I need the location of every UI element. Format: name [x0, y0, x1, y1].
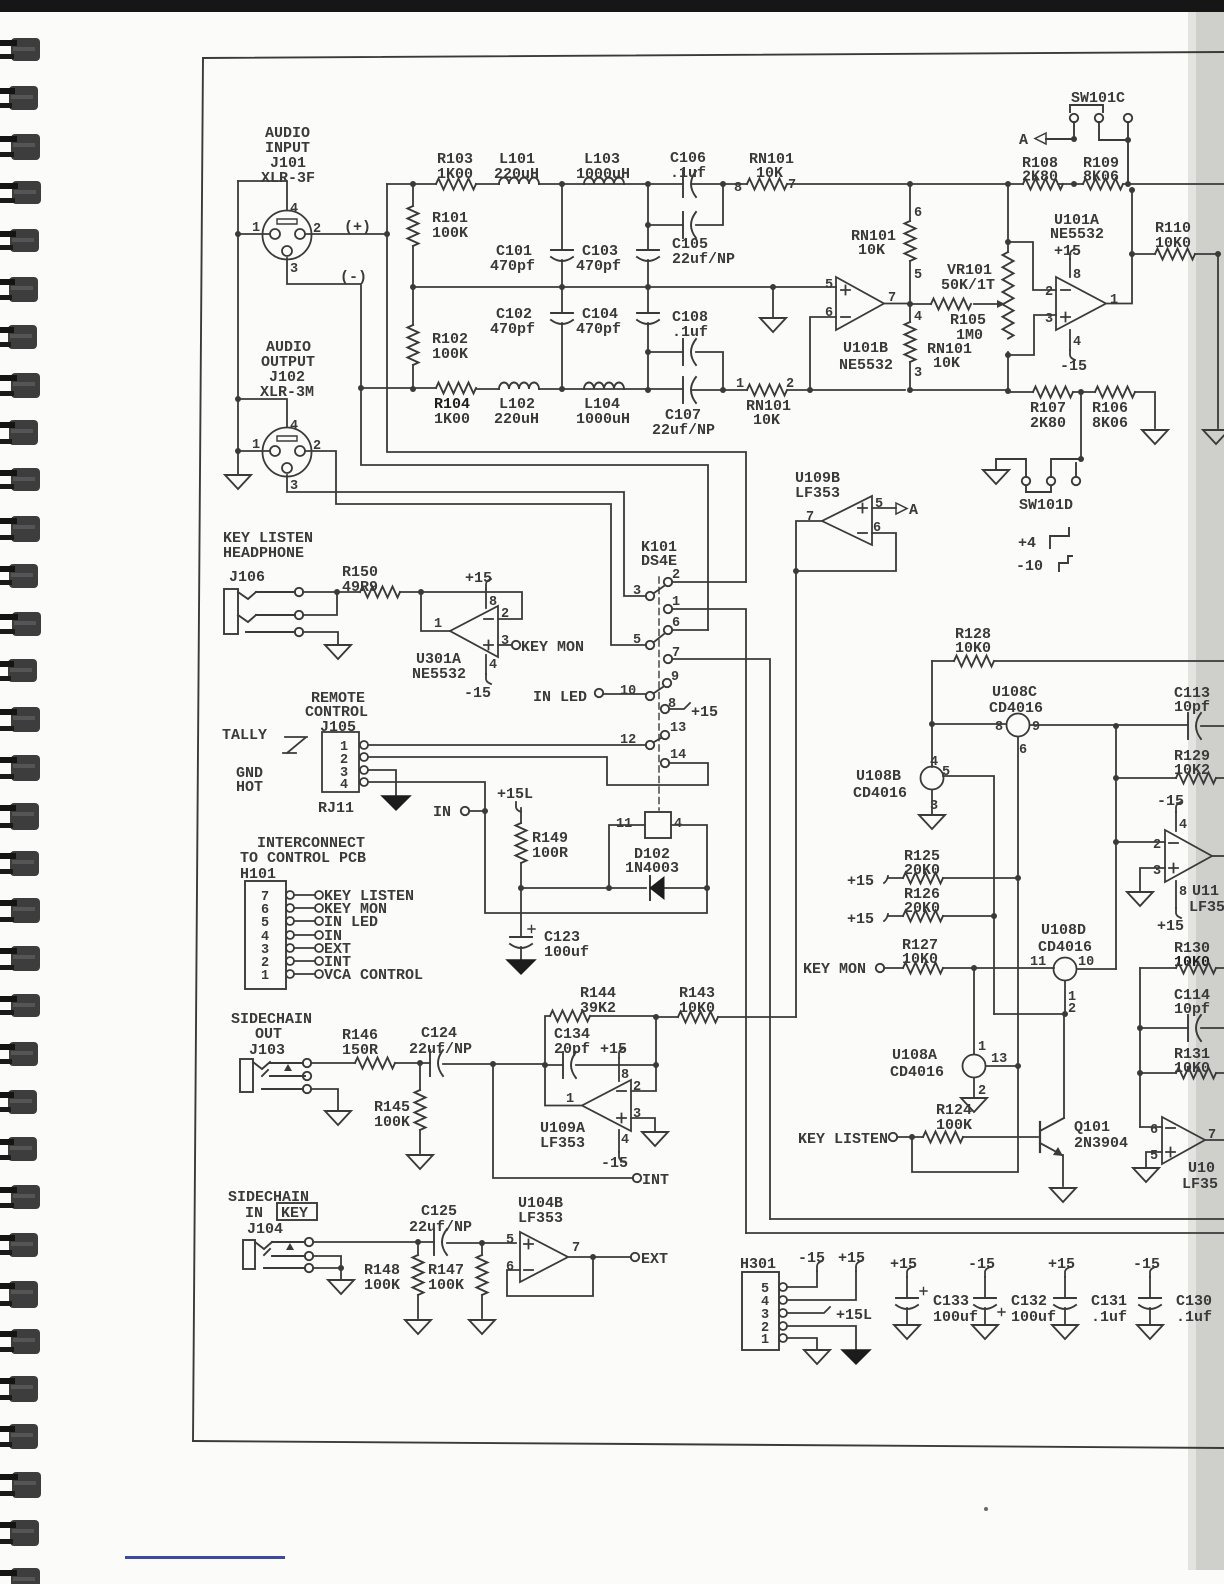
resistor R150 49R9: [360, 587, 400, 598]
H101 pin row KEY MON: [286, 904, 294, 912]
svg-text:100K: 100K: [432, 225, 468, 242]
wire (+) riser to top rail: [386, 184, 388, 234]
node C106 right: [720, 181, 726, 187]
wire U108B pin3 to ground: [931, 790, 933, 814]
wire mid (-) rail: [413, 286, 836, 288]
svg-text:5: 5: [506, 1233, 514, 1248]
wire J102 pin3 to K101 contact 3: [287, 475, 646, 596]
K101 contact 13: [661, 731, 669, 739]
U101A power +15 pin 8: [1069, 259, 1071, 277]
capacitor C108 loop: [648, 352, 723, 390]
svg-text:(-): (-): [340, 269, 367, 286]
svg-text:-15: -15: [1133, 1256, 1160, 1273]
svg-text:10K0: 10K0: [679, 1000, 715, 1017]
resistor R145 100K: [419, 1063, 421, 1153]
wire bottom audio bus (contact1 net): [746, 1232, 1224, 1234]
ground under J102: [225, 475, 251, 489]
svg-text:13: 13: [670, 721, 686, 736]
svg-text:3: 3: [501, 634, 509, 649]
wire R110 to edge ground: [1217, 254, 1219, 428]
wire U109A output: [545, 1065, 582, 1106]
svg-text:7: 7: [806, 510, 814, 525]
op-amp U110A (top right, clipped): [1116, 841, 1165, 843]
K101 contact 6: [664, 626, 672, 634]
svg-text:C130: C130: [1176, 1293, 1212, 1310]
H101 pin row KEY LISTEN: [286, 891, 294, 899]
K101 contact 1: [664, 605, 672, 613]
svg-text:4: 4: [1073, 335, 1081, 350]
svg-text:+15: +15: [1054, 243, 1081, 260]
svg-text:7: 7: [788, 178, 796, 193]
svg-text:8K06: 8K06: [1083, 169, 1119, 186]
op-amp U109B LF353 (points left): [822, 496, 872, 545]
svg-text:470pf: 470pf: [490, 258, 535, 275]
wire U109B pin5 to A arrow: [872, 507, 896, 509]
node R150 output: [400, 591, 421, 593]
U301A power pin 8 +15: [485, 589, 487, 608]
svg-text:10pf: 10pf: [1174, 699, 1210, 716]
relay K101 mechanical dashed link: [658, 577, 660, 810]
svg-text:13: 13: [991, 1052, 1007, 1067]
wire U108A pin2 to ground: [973, 1078, 975, 1097]
svg-text:-15: -15: [798, 1250, 825, 1267]
svg-text:C124: C124: [421, 1025, 457, 1042]
svg-text:2K80: 2K80: [1030, 415, 1066, 432]
svg-text:8: 8: [1179, 885, 1187, 900]
K101 contact 3 with arm: [646, 592, 654, 600]
K101 contact 5 with arm: [646, 641, 654, 649]
schematic frame border: [193, 52, 1224, 1448]
svg-text:4: 4: [340, 778, 348, 793]
H301 pin2 to power ground: [787, 1326, 856, 1349]
svg-text:+15: +15: [1157, 918, 1184, 935]
K101 contact 7: [664, 655, 672, 663]
svg-text:3: 3: [914, 366, 922, 381]
potentiometer VR101 element: [1007, 184, 1009, 391]
svg-text:4: 4: [914, 310, 922, 325]
svg-text:6: 6: [825, 306, 833, 321]
resistor RN101 pins 1-2 (bottom rail): [747, 385, 787, 396]
capacitor C105 parallel loop: [648, 184, 723, 225]
svg-text:8: 8: [734, 181, 742, 196]
node R107/R106 junction: [1078, 389, 1084, 395]
wire J102 pin4: [238, 399, 287, 427]
node bottom rail junction 2: [645, 387, 651, 393]
svg-text:4: 4: [290, 202, 298, 217]
svg-text:8K06: 8K06: [1092, 415, 1128, 432]
svg-text:1000uH: 1000uH: [576, 411, 630, 428]
connector J106 headphone jack: [224, 588, 303, 636]
wire J102 pin1: [238, 451, 270, 474]
H101 pin row IN: [286, 931, 294, 939]
svg-text:1M0: 1M0: [956, 327, 983, 344]
svg-text:3: 3: [633, 1107, 641, 1122]
capacitor C124 22uf/NP: [420, 1063, 493, 1064]
svg-text:C132: C132: [1011, 1293, 1047, 1310]
op-amp U101B NE5532: [836, 277, 884, 330]
svg-text:470pf: 470pf: [576, 258, 621, 275]
svg-text:+15: +15: [465, 570, 492, 587]
svg-text:22uf/NP: 22uf/NP: [672, 251, 735, 268]
resistor R110 10K0: [1132, 253, 1218, 255]
svg-text:IN: IN: [433, 804, 451, 821]
capacitor C134 20pf: [545, 1064, 656, 1066]
svg-text:220uH: 220uH: [494, 166, 539, 183]
U109A power pin4 -15: [618, 1130, 620, 1152]
wire U101B pin6 feedback: [810, 317, 836, 390]
svg-text:100R: 100R: [532, 845, 568, 862]
wire U110B output stub: [1205, 1139, 1224, 1141]
wire U110A output stub: [1212, 855, 1224, 857]
svg-text:10K: 10K: [753, 412, 780, 429]
resistor R103: [436, 179, 476, 190]
connector J101 XLR-3F: [263, 211, 312, 260]
wire U108A pin1 control to KEY MON line: [973, 968, 975, 1054]
wire U108C pin9 to C113 node: [1030, 724, 1188, 726]
inductor L104: [584, 383, 624, 390]
inductor L102: [499, 383, 539, 390]
svg-text:5: 5: [825, 278, 833, 293]
svg-text:1: 1: [261, 969, 269, 984]
svg-text:.1uf: .1uf: [672, 324, 708, 341]
inductor L101: [499, 178, 539, 185]
connector J103 jack: [240, 1059, 311, 1093]
wire coil to D102: [609, 825, 707, 888]
node pin4 junction: [235, 396, 241, 402]
svg-text:CD4016: CD4016: [853, 785, 907, 802]
svg-text:1N4003: 1N4003: [625, 860, 679, 877]
svg-text:+15L: +15L: [836, 1307, 872, 1324]
svg-text:+15L: +15L: [497, 786, 533, 803]
svg-text:KEY LISTEN: KEY LISTEN: [798, 1131, 888, 1148]
wire U108C pin8: [932, 723, 1006, 725]
svg-text:INT: INT: [642, 1172, 669, 1189]
resistor R146 150R: [311, 1062, 420, 1064]
resistor R108 2K80: [1023, 179, 1063, 190]
svg-text:10K0: 10K0: [955, 640, 991, 657]
H301 pin3 to +15L: [787, 1307, 830, 1313]
wire (+) drop to relay K101: [387, 234, 746, 582]
svg-text:2: 2: [786, 377, 794, 392]
H101 pin row VCA CONTROL: [286, 970, 294, 978]
svg-text:OUT: OUT: [255, 1026, 282, 1043]
svg-text:20pf: 20pf: [554, 1041, 590, 1058]
svg-text:22uf/NP: 22uf/NP: [409, 1219, 472, 1236]
wire J106 tip to R150: [303, 591, 360, 593]
svg-text:U108A: U108A: [892, 1047, 937, 1064]
blue pen mark bottom left: [125, 1556, 285, 1559]
transistor Q101 2N3904: [1039, 1122, 1041, 1152]
wire J105 pin3 to ground: [368, 770, 396, 795]
svg-text:1K00: 1K00: [434, 411, 470, 428]
svg-text:KEY MON: KEY MON: [521, 639, 584, 656]
svg-text:1000uH: 1000uH: [576, 166, 630, 183]
svg-text:470pf: 470pf: [576, 321, 621, 338]
svg-text:KEY: KEY: [281, 1205, 308, 1222]
wire to U301A pin2 loop: [421, 592, 522, 619]
node A arrow left: [1035, 133, 1046, 144]
svg-text:LF353: LF353: [795, 485, 840, 502]
wire U109B pin6 feedback loop: [796, 533, 896, 571]
op-amp U109A LF353 (points left): [582, 1080, 631, 1131]
switch SW101D: [1080, 392, 1082, 459]
wire J101 pin4 to ground rail: [238, 181, 287, 210]
svg-text:5: 5: [942, 765, 950, 780]
wire bottom audio bus (contact7 net): [770, 1218, 1224, 1220]
svg-text:HEADPHONE: HEADPHONE: [223, 545, 304, 562]
node top rail junction 1: [559, 181, 565, 187]
svg-text:RJ11: RJ11: [318, 800, 354, 817]
svg-text:C133: C133: [933, 1293, 969, 1310]
resistor R107 2K80: [910, 390, 1095, 392]
node top rail junction 2: [645, 181, 651, 187]
svg-text:-15: -15: [968, 1256, 995, 1273]
wire bottom rail: [361, 388, 905, 390]
svg-text:2: 2: [633, 1080, 641, 1095]
wire U110B pin5 ground: [1146, 1152, 1162, 1167]
svg-text:3: 3: [290, 262, 298, 277]
wire (-) drop to relay K101: [361, 388, 708, 630]
wire U101A pin3 input: [1008, 315, 1056, 355]
U301A power pin 4 -15: [485, 655, 487, 674]
svg-text:+15: +15: [847, 911, 874, 928]
K101 contact 14: [661, 759, 669, 767]
capacitor C125 22uf/NP: [434, 1229, 447, 1255]
capacitor C103: [647, 225, 649, 287]
wire control loop to KEY LISTEN: [912, 1066, 1018, 1172]
potentiometer VR101 wiper arrow: [997, 300, 1005, 308]
svg-text:4: 4: [489, 658, 497, 673]
capacitor C102: [561, 287, 563, 389]
H301 pin1 to ground: [787, 1338, 817, 1349]
svg-text:IN: IN: [245, 1205, 263, 1222]
wire R106 to ground: [1135, 392, 1155, 428]
resistor R109 8K06: [1083, 179, 1123, 190]
svg-text:100K: 100K: [936, 1117, 972, 1134]
node J101 pin1 junction: [235, 231, 241, 237]
svg-text:2: 2: [501, 607, 509, 622]
wire U101A output to feedback node: [1106, 190, 1132, 304]
H101 pin row IN LED: [286, 917, 294, 925]
wire contact 14 to J105 pin2: [368, 757, 708, 785]
svg-text:3: 3: [1153, 864, 1161, 879]
svg-text:22uf/NP: 22uf/NP: [652, 422, 715, 439]
svg-text:J105: J105: [320, 719, 356, 736]
wire U109A pin3 to ground: [631, 1118, 655, 1131]
capacitor C101: [561, 184, 563, 287]
svg-text:J106: J106: [229, 569, 265, 586]
svg-text:10K0: 10K0: [1155, 235, 1191, 252]
svg-text:A: A: [1019, 132, 1028, 149]
svg-text:1: 1: [1110, 293, 1118, 308]
wire U108C pin6 control down: [1017, 737, 1019, 1066]
resistor R143 10K0: [656, 1016, 796, 1018]
capacitor C104: [647, 287, 649, 352]
stray scan dot: [984, 1507, 988, 1511]
J102 pin labels: [252, 419, 321, 494]
svg-text:8: 8: [1073, 268, 1081, 283]
resistor R101: [412, 184, 414, 286]
wire U101A pin2 input: [1008, 242, 1056, 290]
svg-text:U108C: U108C: [992, 684, 1037, 701]
svg-text:LF35: LF35: [1189, 899, 1224, 916]
ground mid rail: [772, 287, 774, 318]
svg-text:7: 7: [572, 1241, 580, 1256]
spiral binding marks (decorative): [0, 38, 41, 1584]
svg-text:1: 1: [978, 1040, 986, 1055]
connector H301: [742, 1272, 779, 1350]
U109A power pin8 +15: [618, 1058, 620, 1081]
capacitor C107: [683, 377, 696, 403]
svg-text:.1uf: .1uf: [1091, 1309, 1127, 1326]
svg-text:5: 5: [875, 497, 883, 512]
svg-text:+15: +15: [1048, 1256, 1075, 1273]
op-amp U110B (bottom right, clipped): [1140, 1126, 1162, 1128]
svg-text:2: 2: [1045, 285, 1053, 300]
wire J102 pin2 to K101 contact 5: [306, 451, 646, 645]
wire R128 left to U108C pin8 line: [931, 661, 933, 767]
svg-text:100K: 100K: [374, 1114, 410, 1131]
wire J101 pin1 left: [238, 233, 270, 235]
K101 contact 10 with arm: [646, 692, 654, 700]
svg-text:100uf: 100uf: [933, 1309, 978, 1326]
svg-text:U101B: U101B: [843, 340, 888, 357]
wire J101 pin3 (-): [287, 258, 361, 388]
wire U104B output to EXT: [568, 1256, 631, 1258]
svg-text:SW101D: SW101D: [1019, 497, 1073, 514]
svg-text:U108B: U108B: [856, 768, 901, 785]
J101 pin labels: [252, 202, 321, 277]
svg-text:C125: C125: [421, 1203, 457, 1220]
resistor R102: [412, 287, 414, 389]
svg-text:5: 5: [914, 268, 922, 283]
svg-text:-15: -15: [1060, 358, 1087, 375]
wire to C134 node: [493, 1063, 545, 1065]
op-amp U104B LF353 (points right): [520, 1232, 568, 1282]
resistor R148 100K: [415, 1239, 421, 1245]
wire ground vertical x=238: [237, 181, 239, 451]
svg-text:22uf/NP: 22uf/NP: [409, 1041, 472, 1058]
resistor R105 1M0: [910, 303, 997, 305]
svg-text:J103: J103: [249, 1042, 285, 1059]
svg-text:10K: 10K: [858, 242, 885, 259]
svg-text:9: 9: [1032, 720, 1040, 735]
node bottom rail junction 1: [559, 386, 565, 392]
svg-text:H301: H301: [740, 1256, 776, 1273]
svg-text:(+): (+): [344, 219, 371, 236]
svg-text:6: 6: [1150, 1123, 1158, 1138]
resistor R128 10K0: [932, 660, 1224, 662]
svg-text:TO CONTROL PCB: TO CONTROL PCB: [240, 850, 366, 867]
capacitor C106: [683, 171, 696, 197]
svg-text:10K: 10K: [933, 355, 960, 372]
K101 contact 9: [663, 679, 671, 687]
resistor RN101 pins 6-5 (feedback from top rail): [909, 184, 911, 304]
svg-text:+15: +15: [838, 1250, 865, 1267]
svg-text:U10: U10: [1188, 1160, 1215, 1177]
net KEY MON output: [498, 644, 512, 646]
svg-text:1K00: 1K00: [437, 166, 473, 183]
svg-text:10pf: 10pf: [1174, 1001, 1210, 1018]
svg-text:2: 2: [978, 1084, 986, 1099]
svg-text:NE5532: NE5532: [1050, 226, 1104, 243]
inductor L103: [584, 178, 624, 185]
capacitor C123 100uf: [520, 888, 522, 960]
svg-text:10: 10: [1078, 955, 1094, 970]
wire J106 sleeve to ground: [303, 632, 338, 644]
svg-text:NE5532: NE5532: [839, 357, 893, 374]
svg-text:Q101: Q101: [1074, 1119, 1110, 1136]
svg-text:1: 1: [736, 377, 744, 392]
svg-text:XLR-3F: XLR-3F: [261, 170, 315, 187]
svg-text:39K2: 39K2: [580, 1000, 616, 1017]
svg-text:CD4016: CD4016: [1038, 939, 1092, 956]
svg-text:A: A: [909, 502, 918, 519]
svg-text:U11: U11: [1192, 883, 1219, 900]
svg-text:100K: 100K: [364, 1277, 400, 1294]
resistor R106 8K06: [1095, 387, 1135, 398]
svg-text:6: 6: [672, 616, 680, 631]
svg-text:1: 1: [434, 617, 442, 632]
svg-text:6: 6: [914, 206, 922, 221]
wire J105 pin4 to IN node: [368, 782, 707, 913]
svg-text:VCA CONTROL: VCA CONTROL: [324, 967, 423, 984]
svg-text:2: 2: [1068, 1002, 1076, 1017]
svg-text:1: 1: [761, 1333, 769, 1348]
svg-text:3: 3: [633, 584, 641, 599]
svg-text:100uf: 100uf: [544, 944, 589, 961]
svg-text:8: 8: [995, 720, 1003, 735]
node (-) junction on bottom rail: [358, 385, 364, 391]
wire J104 tip line: [313, 1242, 516, 1243]
wire U301A output pin1: [421, 592, 450, 631]
wire R130 left riser: [1139, 968, 1141, 1127]
svg-text:LF35: LF35: [1182, 1176, 1218, 1193]
K101 contact 12 with arm: [646, 741, 654, 749]
wire U108D pin10 to right column: [1077, 968, 1116, 970]
svg-text:NE5532: NE5532: [412, 666, 466, 683]
H101 pin row INT: [286, 957, 294, 965]
svg-text:+15: +15: [600, 1041, 627, 1058]
svg-text:470pf: 470pf: [490, 321, 535, 338]
svg-text:1: 1: [672, 595, 680, 610]
svg-text:5: 5: [633, 633, 641, 648]
wire INT line: [493, 1064, 633, 1178]
wire U109A pin2: [631, 1065, 656, 1091]
wire U108B pin5 control down: [943, 776, 994, 1014]
svg-text:-15: -15: [464, 685, 491, 702]
svg-text:LF353: LF353: [518, 1210, 563, 1227]
wire top rail: [387, 183, 1224, 185]
svg-text:2: 2: [1153, 838, 1161, 853]
wire J104 ring+sleeve to ground: [313, 1256, 341, 1279]
svg-text:9: 9: [671, 670, 679, 685]
svg-text:.1uf: .1uf: [670, 165, 706, 182]
svg-text:U108D: U108D: [1041, 922, 1086, 939]
resistor R147 100K: [479, 1240, 485, 1246]
svg-text:150R: 150R: [342, 1042, 378, 1059]
svg-text:100K: 100K: [428, 1277, 464, 1294]
svg-text:10K: 10K: [756, 165, 783, 182]
node R144/R143 junction: [653, 1014, 659, 1020]
svg-text:4: 4: [621, 1133, 629, 1148]
connector H101: [245, 881, 286, 989]
svg-text:5: 5: [261, 916, 269, 931]
wire U101B output: [884, 303, 910, 305]
svg-text:J104: J104: [247, 1221, 283, 1238]
U110A power pin8 +15: [1175, 881, 1177, 908]
H101 pin row EXT: [286, 944, 294, 952]
